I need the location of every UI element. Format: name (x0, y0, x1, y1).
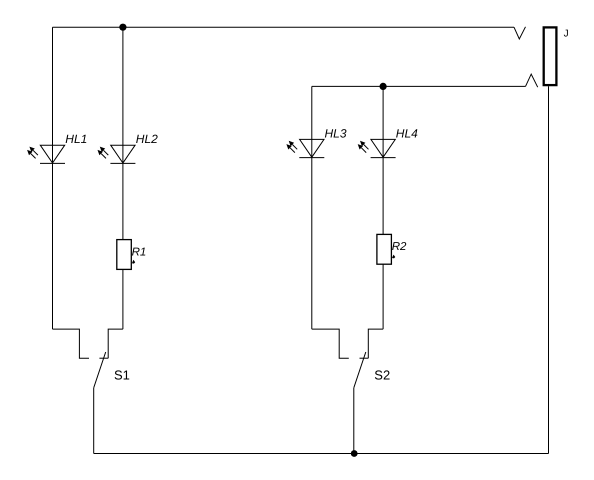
junction node at bottom rail / S2 branch (351, 450, 358, 457)
svg-text:S1: S1 (114, 367, 130, 382)
junction node at second rail / HL4 branch (380, 83, 387, 90)
wire HL1 branch column (52, 27, 54, 329)
switch S2 movable blade (354, 352, 366, 388)
resistor R1 (117, 240, 132, 270)
switch S2 right fixed-contact lead (step from HL4 column) (368, 329, 383, 358)
plug pin chevron top (male contact of connector J) (514, 27, 526, 39)
junction node at top rail / HL2 branch (119, 24, 126, 31)
wire from switch S1 to bottom rail (93, 388, 95, 454)
value mark (asterisk) of R1 (132, 260, 135, 264)
svg-text:HL2: HL2 (136, 132, 158, 146)
switch S2 left fixed-contact lead (step from HL3 column) (312, 329, 349, 358)
svg-text:HL3: HL3 (325, 126, 347, 140)
switch S1 left fixed-contact lead (step from HL1 column) (53, 329, 90, 358)
resistor R2 (377, 234, 392, 264)
switch S2 right contact tick (360, 357, 369, 359)
switch S1 right contact tick (99, 357, 108, 359)
wire second rail from HL3 column to plug pin (312, 85, 526, 87)
wire top rail from HL1 column to plug pin (53, 26, 515, 28)
wire HL2/R1 branch column (122, 27, 124, 329)
svg-text:HL1: HL1 (65, 132, 87, 146)
wire HL4/R2 branch column (382, 86, 384, 329)
LED HL1 (27, 145, 65, 163)
wire HL3 branch column (311, 86, 313, 329)
svg-text:R2: R2 (392, 241, 407, 253)
switch S1 right fixed-contact lead (step from HL2 column) (108, 329, 123, 358)
value mark (asterisk) of R2 (392, 255, 395, 259)
wire bottom rail (94, 453, 549, 455)
plug pin chevron bottom (male contact of connector J) (526, 74, 538, 87)
svg-text:J: J (564, 29, 569, 40)
svg-text:HL4: HL4 (396, 126, 418, 140)
LED HL2 (98, 145, 136, 163)
LED HL4 (358, 139, 396, 157)
svg-text:S2: S2 (374, 367, 390, 382)
switch S1 movable blade (94, 352, 106, 388)
svg-text:R1: R1 (132, 246, 147, 258)
connector J socket body (544, 27, 557, 85)
wire from connector J to bottom rail (548, 86, 550, 453)
LED HL3 (286, 139, 324, 157)
wire from switch S2 to bottom rail (353, 388, 355, 454)
